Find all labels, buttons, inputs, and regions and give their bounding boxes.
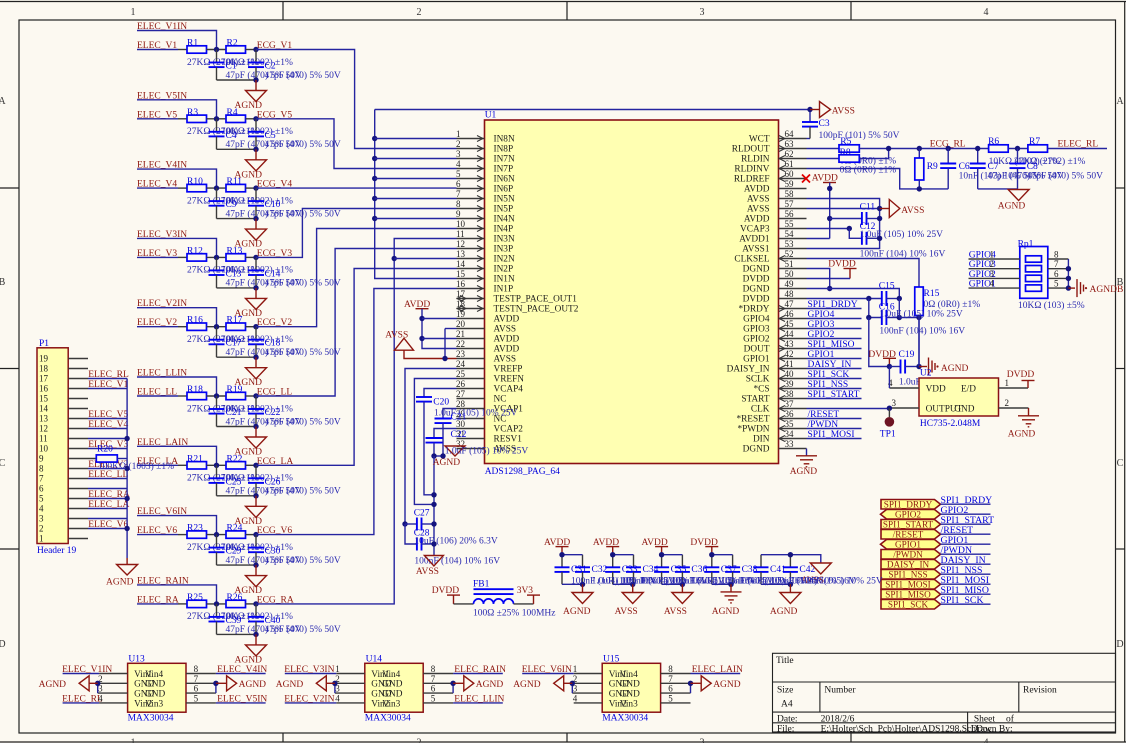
svg-text:File:: File: xyxy=(777,725,794,735)
svg-text:U13: U13 xyxy=(128,655,145,665)
capacitor C8 xyxy=(1017,149,1019,164)
wire CLKSEL riser xyxy=(807,259,920,288)
wire AVDD1 xyxy=(807,238,830,240)
svg-text:AGND: AGND xyxy=(712,607,740,617)
U1 pin 50 DVDD xyxy=(779,278,807,280)
svg-text:5: 5 xyxy=(1054,279,1059,289)
svg-text:22: 22 xyxy=(456,339,465,349)
svg-text:*PWDN: *PWDN xyxy=(737,425,769,435)
wire xyxy=(1067,259,1069,288)
resistor R7 xyxy=(1028,145,1048,152)
svg-text:Vin3: Vin3 xyxy=(620,699,638,709)
svg-text:GND: GND xyxy=(954,405,974,415)
node GPIO4 xyxy=(969,258,1020,260)
svg-text:33: 33 xyxy=(785,439,795,449)
svg-text:/RESET: /RESET xyxy=(808,410,840,420)
node GPIO2 xyxy=(941,513,991,515)
ground AGND (right) xyxy=(215,683,217,693)
svg-text:15: 15 xyxy=(39,394,49,404)
port SPI1_SCK xyxy=(881,600,941,610)
resistor R23 xyxy=(187,531,207,538)
title block xyxy=(773,653,1116,732)
wire R8 out joins RLDOUT xyxy=(859,149,888,159)
capacitor C29 xyxy=(216,535,218,548)
op-amp U13 MAX30034 xyxy=(128,663,186,712)
svg-text:R7: R7 xyxy=(1029,137,1040,147)
resistor R2 xyxy=(226,46,246,53)
svg-text:R19: R19 xyxy=(227,385,243,395)
svg-text:45: 45 xyxy=(785,319,795,329)
wire xyxy=(1048,277,1069,279)
resistor R13 xyxy=(226,254,246,261)
ground AVSS xyxy=(680,582,685,587)
wire DVDD pin50 xyxy=(807,278,851,280)
wire AVSS rail xyxy=(807,199,880,249)
svg-text:100pF (101) 5% 50V: 100pF (101) 5% 50V xyxy=(819,130,900,141)
node SPI1_NSS xyxy=(941,573,991,575)
wire xyxy=(246,326,257,328)
svg-text:/PWDN: /PWDN xyxy=(808,420,839,430)
svg-text:8: 8 xyxy=(431,664,436,674)
svg-text:AVSS: AVSS xyxy=(494,325,517,335)
svg-text:ELEC_RAIN: ELEC_RAIN xyxy=(454,665,506,675)
wire VREFN xyxy=(414,379,456,505)
port SPI1_MISO xyxy=(881,590,941,600)
svg-text:6: 6 xyxy=(194,684,199,694)
port SPI1_NSS xyxy=(881,570,941,580)
U14 pin 2 xyxy=(335,682,365,684)
svg-text:IN7P: IN7P xyxy=(494,165,514,175)
svg-text:/PWDN: /PWDN xyxy=(893,550,923,560)
node GPIO3 xyxy=(969,268,1020,270)
wire DGND 51 xyxy=(807,269,830,289)
svg-text:Header 19: Header 19 xyxy=(37,546,77,556)
node /RESET xyxy=(807,418,862,420)
svg-text:14: 14 xyxy=(39,404,49,414)
U13 pin 5 ELEC_V5IN xyxy=(186,702,216,704)
svg-text:7: 7 xyxy=(194,674,199,684)
U1 pin 46 GPIO4 xyxy=(779,318,807,320)
wire xyxy=(207,534,227,536)
svg-text:C41: C41 xyxy=(770,565,786,575)
svg-text:57: 57 xyxy=(785,199,795,209)
svg-text:23: 23 xyxy=(456,349,466,359)
wire ELEC_RL to AGND rail xyxy=(126,379,128,559)
resistor R4 xyxy=(226,115,246,122)
node SPI1_MISO xyxy=(941,593,991,595)
svg-text:GND: GND xyxy=(382,680,402,690)
wire xyxy=(246,395,257,397)
wire xyxy=(137,585,217,604)
svg-text:6: 6 xyxy=(431,684,436,694)
svg-text:AGND: AGND xyxy=(770,607,798,617)
svg-text:GPIO4: GPIO4 xyxy=(808,310,835,320)
node DAISY_IN xyxy=(807,368,862,370)
svg-text:NC: NC xyxy=(494,395,507,405)
svg-text:IN5P: IN5P xyxy=(494,205,514,215)
svg-text:AGNDB: AGNDB xyxy=(1090,285,1124,295)
wire xyxy=(137,238,217,257)
svg-text:GPIO2: GPIO2 xyxy=(808,330,835,340)
wire xyxy=(217,426,257,428)
U1 pin 47 *DRDY xyxy=(779,308,807,310)
svg-text:8: 8 xyxy=(668,664,673,674)
U1 pin 64 WCT xyxy=(779,138,807,140)
svg-text:SPI1_SCK: SPI1_SCK xyxy=(941,595,984,606)
U13 pin 6 xyxy=(186,692,216,694)
svg-text:SCLK: SCLK xyxy=(746,375,770,385)
svg-text:17: 17 xyxy=(39,374,49,384)
svg-text:AVSS: AVSS xyxy=(747,205,770,215)
svg-text:60: 60 xyxy=(785,169,795,179)
node GPIO1 xyxy=(969,287,1020,289)
svg-text:/RESET: /RESET xyxy=(893,530,924,540)
U13 pin 2 xyxy=(98,682,128,684)
svg-text:ELEC_RL: ELEC_RL xyxy=(88,370,129,380)
U1 pin 37 CLK xyxy=(779,408,807,410)
wire xyxy=(375,138,457,140)
node SPI1_START xyxy=(941,523,991,525)
svg-text:55: 55 xyxy=(785,219,795,229)
port SPI1_MOSI xyxy=(881,580,941,590)
junction xyxy=(253,255,258,260)
port GPIO2 xyxy=(881,510,941,520)
U13 pin 3 xyxy=(98,692,128,694)
svg-text:4: 4 xyxy=(984,738,989,743)
wire xyxy=(137,100,217,119)
svg-text:1: 1 xyxy=(573,664,578,674)
svg-text:ELEC_RL: ELEC_RL xyxy=(62,694,103,704)
svg-text:AGND: AGND xyxy=(235,655,263,665)
svg-text:ELEC_V1IN: ELEC_V1IN xyxy=(62,665,112,675)
power AVSS xyxy=(424,556,443,567)
U1 pin 27 NC xyxy=(457,398,485,400)
node GPIO3 xyxy=(807,328,862,330)
wire xyxy=(137,31,217,50)
Rp1 element 4 xyxy=(1026,285,1042,291)
node SPI1_SCK xyxy=(941,603,991,605)
svg-text:C7: C7 xyxy=(988,162,999,172)
svg-text:1.0uF (105) 10% 25V: 1.0uF (105) 10% 25V xyxy=(860,229,944,240)
svg-text:10uF (106) 20% 6.3V: 10uF (106) 20% 6.3V xyxy=(414,535,498,546)
pin 17/18 stub arrows xyxy=(457,296,463,302)
junction xyxy=(214,47,219,52)
capacitor C12 xyxy=(807,228,850,230)
junction xyxy=(124,436,129,441)
svg-text:7: 7 xyxy=(668,674,673,684)
node /PWDN xyxy=(807,428,862,430)
U2 pin 1 DVDD xyxy=(999,387,1029,389)
svg-text:AVDD: AVDD xyxy=(494,335,520,345)
resistor R17 xyxy=(226,323,246,330)
U1 pin 40 SCLK xyxy=(779,378,807,380)
capacitor C38 xyxy=(732,555,734,568)
capacitor C9 xyxy=(216,188,218,201)
capacitor C42 xyxy=(789,555,791,568)
svg-text:VREFP: VREFP xyxy=(494,365,523,375)
svg-text:R5: R5 xyxy=(840,137,851,147)
svg-text:AVSS: AVSS xyxy=(416,567,439,577)
svg-text:D: D xyxy=(1116,639,1123,650)
capacitor C2 xyxy=(255,50,257,63)
junction xyxy=(827,186,832,191)
svg-text:Vin3: Vin3 xyxy=(145,699,163,709)
port /RESET xyxy=(881,530,941,540)
svg-text:5: 5 xyxy=(194,693,199,703)
U1 pin 55 VCAP3 xyxy=(779,228,807,230)
U1 pin 58 AVSS xyxy=(779,198,807,200)
svg-text:IN3P: IN3P xyxy=(494,245,514,255)
svg-text:12: 12 xyxy=(39,424,48,434)
wire xyxy=(662,554,683,556)
svg-text:1.0uF: 1.0uF xyxy=(899,378,921,388)
svg-text:GPIO1: GPIO1 xyxy=(743,355,770,365)
ground AGND xyxy=(255,288,257,299)
svg-text:R4: R4 xyxy=(227,108,238,118)
wire xyxy=(207,603,227,605)
U1 pin 25 VREFN xyxy=(457,378,485,380)
svg-text:ELEC_V4: ELEC_V4 xyxy=(88,420,128,430)
U1 pin 2 IN8P xyxy=(457,148,485,150)
svg-text:2: 2 xyxy=(990,259,995,269)
svg-text:DGND: DGND xyxy=(743,265,770,275)
svg-text:AVDD: AVDD xyxy=(494,315,520,325)
svg-text:7: 7 xyxy=(39,474,44,484)
capacitor C18 xyxy=(255,327,257,340)
svg-text:GPIO2: GPIO2 xyxy=(895,510,921,520)
U15 pin 5 xyxy=(661,702,691,704)
svg-text:64: 64 xyxy=(785,129,795,139)
svg-text:AGND: AGND xyxy=(998,201,1026,211)
resistor R21 xyxy=(187,462,207,469)
wire vcap rail xyxy=(434,455,443,457)
U1 pin 35 *PWDN xyxy=(779,428,807,430)
junction xyxy=(886,146,891,151)
wire xyxy=(217,218,257,220)
svg-text:ELEC_V1: ELEC_V1 xyxy=(88,380,128,390)
U1 pin 38 START xyxy=(779,398,807,400)
wire xyxy=(256,229,457,327)
U1 pin 1 IN8N xyxy=(457,138,485,140)
resistor R10 xyxy=(187,184,207,191)
svg-text:RLDOUT: RLDOUT xyxy=(732,145,770,155)
wire xyxy=(137,446,217,465)
node SPI1_MISO xyxy=(807,348,862,350)
svg-text:of: of xyxy=(1006,714,1015,725)
op-amp U14 MAX30034 xyxy=(365,663,423,712)
svg-text:C22: C22 xyxy=(451,430,467,440)
svg-text:GND: GND xyxy=(620,680,640,690)
svg-text:ELEC_V6: ELEC_V6 xyxy=(88,520,128,530)
svg-text:51: 51 xyxy=(785,259,794,269)
svg-text:7: 7 xyxy=(456,189,461,199)
svg-text:SPI1_MISO: SPI1_MISO xyxy=(885,590,931,600)
capacitor C21 xyxy=(216,396,218,409)
svg-text:2: 2 xyxy=(417,738,422,743)
svg-text:C35: C35 xyxy=(671,565,687,575)
wire xyxy=(256,289,457,535)
svg-text:100KΩ (1003) ±1%: 100KΩ (1003) ±1% xyxy=(98,461,174,472)
svg-text:16: 16 xyxy=(456,279,466,289)
resistor R25 xyxy=(187,600,207,607)
svg-text:2: 2 xyxy=(1005,398,1010,408)
capacitor C17 xyxy=(216,327,218,340)
svg-text:R12: R12 xyxy=(187,246,203,256)
svg-text:ELEC_RL: ELEC_RL xyxy=(1058,140,1099,150)
capacitor C39 xyxy=(216,604,218,617)
capacitor C21 xyxy=(443,409,457,419)
wire xyxy=(137,326,178,328)
svg-text:IN4P: IN4P xyxy=(494,225,514,235)
capacitor C36 xyxy=(681,555,683,568)
svg-text:11: 11 xyxy=(39,434,48,444)
wire RLDOUT to ECG_RL xyxy=(859,148,988,150)
svg-text:18: 18 xyxy=(39,364,49,374)
svg-text:GPIO2: GPIO2 xyxy=(743,335,770,345)
svg-text:*DRDY: *DRDY xyxy=(739,305,770,315)
power AVSS xyxy=(807,208,880,210)
resistor R6 xyxy=(989,145,1009,152)
svg-text:54: 54 xyxy=(785,229,795,239)
U1 pin 4 IN7P xyxy=(457,168,485,170)
svg-text:C19: C19 xyxy=(899,350,915,360)
power AVSS xyxy=(810,109,820,111)
svg-text:HC735-2.048M: HC735-2.048M xyxy=(920,419,981,429)
U1 pin 39 *CS xyxy=(779,388,807,390)
U1 pin 33 DGND xyxy=(779,448,807,450)
U1 pin 17 TESTP_PACE_OUT1 xyxy=(457,298,485,300)
capacitor C19 xyxy=(887,364,892,369)
svg-text:DVDD: DVDD xyxy=(743,295,770,305)
svg-text:AVSS1: AVSS1 xyxy=(742,245,770,255)
junction xyxy=(807,107,812,112)
U1 pin 16 IN1P xyxy=(457,288,485,290)
wire xyxy=(217,564,257,566)
op-amp U1 ADS1298 body xyxy=(485,120,779,464)
U1 pin 48 DVDD xyxy=(779,298,807,300)
wire xyxy=(217,79,257,81)
svg-text:6: 6 xyxy=(456,179,461,189)
U1 pin 51 DGND xyxy=(779,268,807,270)
wire xyxy=(257,187,457,189)
U13 pin 1 ELEC_V1IN xyxy=(99,673,128,675)
node /RESET xyxy=(941,533,991,535)
svg-text:100nF (104) 10% 16V: 100nF (104) 10% 16V xyxy=(414,555,500,566)
junction xyxy=(124,496,129,501)
svg-text:AGND: AGND xyxy=(276,680,304,690)
Rp1 element 1 xyxy=(1026,256,1042,262)
svg-text:AGND: AGND xyxy=(563,607,591,617)
svg-text:R8: R8 xyxy=(840,148,851,158)
resistor R19 xyxy=(226,392,246,399)
junction xyxy=(1015,146,1020,151)
svg-text:IN8P: IN8P xyxy=(494,145,514,155)
capacitor C14 xyxy=(255,257,257,270)
svg-text:IN6N: IN6N xyxy=(494,175,515,185)
svg-text:47pF (470) 5% 50V: 47pF (470) 5% 50V xyxy=(265,278,341,289)
svg-text:VDD: VDD xyxy=(926,385,946,395)
resistor R18 xyxy=(187,392,207,399)
junction xyxy=(253,324,258,329)
wire xyxy=(137,49,178,51)
svg-text:AVSS: AVSS xyxy=(664,607,687,617)
wire xyxy=(207,326,227,328)
svg-text:B: B xyxy=(0,277,6,288)
svg-text:56: 56 xyxy=(785,209,795,219)
svg-text:CLKSEL: CLKSEL xyxy=(734,255,769,265)
capacitor C16 xyxy=(869,299,882,318)
svg-text:C34: C34 xyxy=(643,565,659,575)
U1 pin 3 IN7N xyxy=(457,158,485,160)
wire xyxy=(137,534,178,536)
svg-text:ELEC_LA: ELEC_LA xyxy=(88,500,129,510)
svg-text:3: 3 xyxy=(990,269,995,279)
svg-text:1.0uF (105) 10% 25V: 1.0uF (105) 10% 25V xyxy=(445,445,529,456)
wire xyxy=(246,187,257,189)
resistor R1 xyxy=(187,46,207,53)
svg-text:0Ω (0R0) ±1%: 0Ω (0R0) ±1% xyxy=(840,165,897,176)
svg-text:SPI1_NSS: SPI1_NSS xyxy=(808,380,849,390)
wire xyxy=(137,395,178,397)
wire AVSS tail xyxy=(790,555,820,563)
svg-text:DIN: DIN xyxy=(753,435,770,445)
U1 pin 14 IN2P xyxy=(457,268,485,270)
svg-text:3: 3 xyxy=(700,7,705,18)
capacitor C25 xyxy=(216,465,218,478)
svg-text:IN5N: IN5N xyxy=(494,195,515,205)
node SPI1_MOSI xyxy=(941,583,991,585)
ground AGND xyxy=(255,357,257,368)
inductor FB1 xyxy=(454,603,474,605)
Rp1 element 3 xyxy=(1026,275,1042,281)
svg-text:Date:: Date: xyxy=(777,715,798,725)
junction xyxy=(917,186,922,191)
svg-text:59: 59 xyxy=(785,179,795,189)
ground AGND xyxy=(1018,415,1039,417)
U1 pin 41 DAISY_IN xyxy=(779,368,807,370)
svg-text:C37: C37 xyxy=(721,565,737,575)
svg-text:AGND: AGND xyxy=(239,680,267,690)
junction xyxy=(253,463,258,468)
svg-text:63: 63 xyxy=(785,139,795,149)
op-amp U15 MAX30034 xyxy=(602,663,660,712)
svg-text:R3: R3 xyxy=(187,108,198,118)
resistor R5 xyxy=(807,148,840,150)
U1 pin 42 GPIO1 xyxy=(779,358,807,360)
svg-text:100Ω ±25% 100MHz: 100Ω ±25% 100MHz xyxy=(473,609,555,619)
U1 pin 49 DGND xyxy=(779,288,807,290)
U1 pin 26 VCAP4 xyxy=(457,388,485,390)
svg-text:R18: R18 xyxy=(187,385,203,395)
svg-text:3: 3 xyxy=(700,738,705,743)
U15 pin 2 xyxy=(572,682,602,684)
U1 pin 29 NC xyxy=(457,418,485,420)
svg-text:R6: R6 xyxy=(988,137,999,147)
junction xyxy=(214,393,219,398)
U1 pin 62 RLDIN xyxy=(779,158,807,160)
svg-text:SPI1_START: SPI1_START xyxy=(883,520,934,530)
svg-text:AVSS: AVSS xyxy=(832,106,855,116)
wire xyxy=(375,158,457,160)
svg-text:53: 53 xyxy=(785,239,795,249)
svg-text:R20: R20 xyxy=(97,444,113,454)
svg-text:8: 8 xyxy=(456,199,461,209)
svg-text:58: 58 xyxy=(785,189,795,199)
svg-text:C31: C31 xyxy=(571,565,587,575)
port DAISY_IN xyxy=(881,560,941,570)
svg-text:FB1: FB1 xyxy=(473,580,490,590)
svg-text:Size: Size xyxy=(777,685,793,695)
